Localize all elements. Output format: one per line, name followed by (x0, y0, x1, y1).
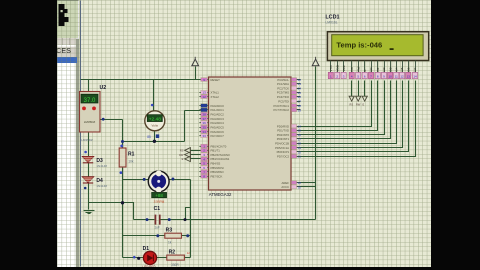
svg-text:Volts: Volts (152, 123, 159, 127)
wire U2 output (101, 118, 123, 121)
svg-text:D1: D1 (376, 67, 380, 71)
svg-text:PA5/ADC5: PA5/ADC5 (211, 125, 225, 129)
svg-text:C1: C1 (154, 206, 161, 212)
svg-text:D5: D5 (400, 67, 404, 71)
svg-text:R2: R2 (169, 249, 176, 255)
svg-text:XTAL2: XTAL2 (211, 95, 220, 99)
svg-text:30: 30 (298, 185, 302, 189)
svg-text:37.0: 37.0 (84, 98, 96, 104)
fan motor (148, 170, 169, 198)
diode D4 (82, 177, 94, 183)
resistor R2 (167, 255, 185, 260)
label fan RPM (154, 200, 165, 204)
svg-text:12: 12 (400, 75, 404, 79)
wire AVCC (301, 186, 316, 188)
label R1 (128, 151, 135, 163)
svg-text:12: 12 (187, 251, 191, 255)
svg-text:D1: D1 (143, 246, 150, 252)
wire LCD D2 to PD2 (301, 81, 385, 135)
terminal E under LCD (362, 81, 367, 107)
terminal RW under LCD (356, 81, 361, 107)
svg-text:AVCC: AVCC (281, 185, 289, 189)
wire node B branch to C1 rail (186, 208, 191, 220)
svg-text:12: 12 (202, 95, 206, 99)
label ATMEGA32 (209, 192, 232, 197)
ground symbol (84, 203, 95, 214)
svg-text:1N4148: 1N4148 (96, 184, 107, 188)
svg-text:E: E (182, 157, 184, 161)
svg-text:R3: R3 (166, 228, 173, 234)
svg-text:18: 18 (298, 142, 302, 146)
svg-text:+88: +88 (155, 193, 163, 198)
resistor R3 (165, 233, 182, 238)
wire fan left (123, 178, 149, 181)
svg-text:RW: RW (179, 153, 184, 157)
svg-text:PD7/OC2: PD7/OC2 (277, 155, 289, 159)
wire R3 right lead (182, 234, 191, 237)
wire fan right (169, 178, 191, 181)
wire R2 right lead (185, 251, 191, 257)
wire LCD D0 to PD0 (301, 81, 372, 127)
wire C1 rail left (134, 218, 155, 221)
svg-text:ATMEGA32: ATMEGA32 (209, 192, 232, 197)
microcontroller U1 ATMEGA32 (200, 77, 302, 190)
voltmeter (145, 111, 165, 131)
svg-text:26: 26 (298, 95, 302, 99)
svg-text:PB7/SCK: PB7/SCK (211, 175, 223, 179)
wire LCD D5 to PD5 (301, 81, 403, 148)
svg-text:RW: RW (356, 66, 360, 71)
wire voltmeter top riser (151, 80, 154, 112)
svg-text:RS: RS (350, 67, 354, 71)
wire LCD D4 to PD4 (301, 81, 397, 144)
label R3 (166, 228, 173, 245)
wire D3 D4 column (84, 133, 89, 203)
svg-text:29: 29 (298, 108, 302, 112)
wire main vertical node A (122, 120, 124, 258)
label D3 (96, 158, 107, 168)
svg-text:11: 11 (395, 75, 398, 79)
wire LCD D6 to PD6 (301, 81, 409, 152)
svg-text:D2: D2 (382, 67, 386, 71)
svg-text:27: 27 (298, 100, 302, 104)
svg-text:E: E (363, 69, 367, 71)
wire LCD D7 to PD7 (301, 81, 416, 157)
wire D1 feed (123, 256, 144, 260)
svg-text:VDD: VDD (335, 64, 339, 71)
svg-text:D7: D7 (413, 67, 417, 71)
wire R3 left lead (123, 234, 165, 237)
svg-text:RW: RW (356, 103, 361, 107)
svg-text:RESET: RESET (211, 78, 221, 82)
wire LCD D1 to PD1 (301, 81, 378, 131)
svg-text:14: 14 (413, 75, 417, 79)
svg-text:35: 35 (202, 126, 206, 130)
label C1 (154, 206, 161, 230)
svg-text:33: 33 (202, 134, 206, 138)
svg-text:PD4/OC1B: PD4/OC1B (275, 142, 289, 146)
svg-text:LM35DZ: LM35DZ (81, 138, 93, 142)
svg-text:D0: D0 (369, 67, 373, 71)
preview component silhouette (59, 4, 69, 26)
power terminal VCC2 and AVCC column (312, 57, 319, 220)
wire VCC top rail (81, 79, 205, 81)
label R2 (169, 249, 180, 267)
svg-text:1uF: 1uF (154, 226, 160, 230)
wire to PA1/ADC1 (185, 111, 205, 142)
junction near voltmeter (147, 134, 159, 139)
resistor R1 (119, 145, 126, 175)
wire U2 top riser (88, 80, 90, 92)
LED D1 (143, 251, 156, 264)
wire ground rail (89, 201, 134, 219)
svg-text:85: 85 (147, 135, 151, 139)
svg-text:RS: RS (180, 149, 184, 153)
wire voltmeter bottom to node (121, 131, 185, 144)
label LCD1 (325, 15, 339, 25)
svg-text:PB4/SS: PB4/SS (211, 162, 221, 166)
sheet border line (80, 1, 82, 267)
svg-text:LM016L: LM016L (325, 21, 337, 25)
wire AREF (301, 182, 316, 184)
svg-text:13: 13 (407, 75, 411, 79)
wire C1 rail right to AVCC column (161, 218, 316, 221)
DEVICES header (56, 46, 76, 59)
svg-text:D4: D4 (395, 67, 399, 71)
svg-text:VSS: VSS (329, 65, 333, 71)
svg-text:D6: D6 (407, 67, 411, 71)
terminal RS at PB1 (180, 148, 200, 153)
temperature sensor U2 LM35 (80, 92, 101, 133)
svg-text:D3: D3 (388, 67, 392, 71)
LCD display LCD1 LM016L (327, 32, 428, 79)
svg-text:1k: 1k (168, 240, 172, 244)
label U2 (81, 85, 106, 142)
terminal E at PB3 (182, 156, 200, 161)
svg-text:+2.48: +2.48 (149, 117, 161, 123)
label D1 (142, 246, 156, 268)
svg-text:Temp is:-046: Temp is:-046 (336, 41, 382, 50)
svg-text:R1: R1 (128, 151, 135, 157)
svg-text:10: 10 (389, 75, 393, 79)
svg-text:PC7/TOSC2: PC7/TOSC2 (274, 108, 290, 112)
svg-text:3?RPM: 3?RPM (154, 200, 165, 204)
svg-text:U2: U2 (100, 85, 107, 91)
label D4 (96, 178, 107, 188)
selected device row (56, 57, 77, 63)
svg-text:21: 21 (298, 155, 302, 159)
svg-text:LM35DZ: LM35DZ (84, 120, 96, 124)
power terminal VCC1 (192, 57, 199, 80)
svg-text:RS: RS (350, 103, 354, 107)
wire D1 to R2 (157, 257, 167, 259)
svg-text:E: E (363, 103, 365, 107)
terminal RS under LCD (349, 81, 354, 107)
terminal RW at PB2 (179, 152, 199, 157)
svg-text:VEE: VEE (342, 65, 346, 71)
wire right vertical node B (190, 180, 192, 258)
capacitor C1 (155, 215, 161, 225)
diode D3 (82, 156, 94, 162)
svg-text:1N4148: 1N4148 (96, 164, 107, 168)
wire LCD D3 to PD3 (301, 81, 391, 139)
svg-text:PC5/TDI: PC5/TDI (278, 99, 289, 103)
component preview window (56, 0, 79, 39)
svg-text:PA7/ADC7: PA7/ADC7 (211, 134, 225, 138)
svg-text:10k: 10k (128, 160, 134, 164)
